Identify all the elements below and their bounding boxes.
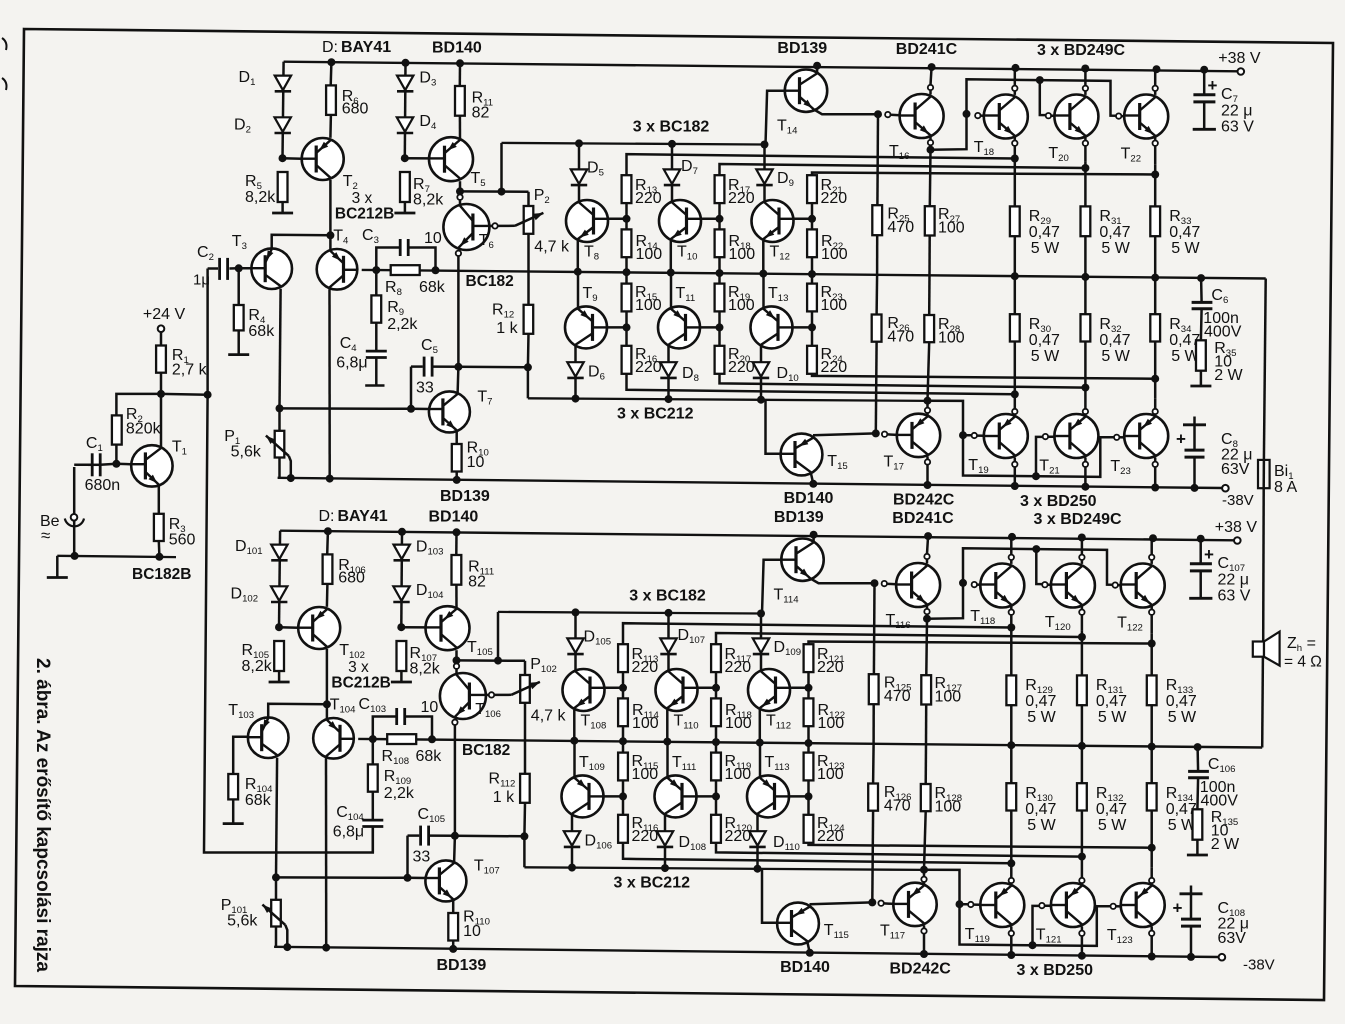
svg-text:33: 33 <box>413 849 431 866</box>
svg-text:68k: 68k <box>245 792 272 809</box>
svg-text:BD242C: BD242C <box>893 492 955 509</box>
svg-text:68k: 68k <box>416 748 443 765</box>
svg-text:BD241C: BD241C <box>896 41 958 58</box>
svg-text:BD140: BD140 <box>429 509 479 526</box>
svg-text:100: 100 <box>938 220 965 237</box>
svg-text:BAY41: BAY41 <box>341 39 391 56</box>
svg-text:400V: 400V <box>1204 324 1242 341</box>
svg-text:5 W: 5 W <box>1168 709 1197 726</box>
svg-text:220: 220 <box>821 190 848 207</box>
svg-text:BD140: BD140 <box>784 490 834 507</box>
svg-text:3 x BC182: 3 x BC182 <box>633 119 710 136</box>
svg-text:0,47: 0,47 <box>1096 693 1127 710</box>
svg-text:220: 220 <box>725 828 752 845</box>
svg-text:470: 470 <box>887 219 914 236</box>
svg-text:BC182: BC182 <box>462 742 510 759</box>
svg-text:100: 100 <box>821 297 848 314</box>
svg-text:400V: 400V <box>1201 793 1239 810</box>
svg-text:0,47: 0,47 <box>1166 693 1197 710</box>
svg-text:BD140: BD140 <box>432 40 482 57</box>
svg-text:2 W: 2 W <box>1214 367 1243 384</box>
svg-text:3 x BC212: 3 x BC212 <box>617 406 694 423</box>
svg-text:63V: 63V <box>1218 930 1247 947</box>
svg-text:220: 220 <box>728 359 755 376</box>
svg-text:100: 100 <box>935 689 962 706</box>
svg-text:5 W: 5 W <box>1101 348 1130 365</box>
svg-text:2. ábra. Az erősítő kapcsolási: 2. ábra. Az erősítő kapcsolási rajza <box>32 658 53 972</box>
svg-text:-38V: -38V <box>1243 957 1275 974</box>
svg-text:63 V: 63 V <box>1221 119 1254 136</box>
svg-text:6,8μ: 6,8μ <box>333 824 364 841</box>
svg-text:0,47: 0,47 <box>1029 332 1060 349</box>
svg-text:680: 680 <box>342 101 369 118</box>
svg-text:33: 33 <box>416 380 434 397</box>
svg-text:100: 100 <box>725 715 752 732</box>
svg-text:BD242C: BD242C <box>890 961 952 978</box>
svg-text:100: 100 <box>725 766 752 783</box>
svg-text:≈: ≈ <box>41 526 50 545</box>
svg-text:100: 100 <box>636 246 663 263</box>
svg-text:82: 82 <box>472 105 490 122</box>
svg-text:560: 560 <box>169 532 196 549</box>
svg-text:BAY41: BAY41 <box>338 508 388 525</box>
svg-text:8,2k: 8,2k <box>245 189 276 206</box>
svg-text:1 k: 1 k <box>493 789 515 806</box>
svg-text:6,8μ: 6,8μ <box>336 355 367 372</box>
svg-text:D:: D: <box>319 508 335 525</box>
svg-text:820k: 820k <box>126 421 162 438</box>
svg-text:5 W: 5 W <box>1031 240 1060 257</box>
svg-text:0,47: 0,47 <box>1025 693 1056 710</box>
svg-text:8,2k: 8,2k <box>413 192 444 209</box>
svg-text:68k: 68k <box>248 323 275 340</box>
svg-text:220: 220 <box>635 190 662 207</box>
svg-text:220: 220 <box>821 359 848 376</box>
svg-text:D:: D: <box>322 39 338 56</box>
svg-text:220: 220 <box>817 659 844 676</box>
svg-text:100: 100 <box>635 297 662 314</box>
svg-text:Zh​ =: Zh​ = <box>1287 635 1316 654</box>
svg-text:2,7 k: 2,7 k <box>172 362 208 379</box>
svg-text:82: 82 <box>468 574 486 591</box>
svg-text:10: 10 <box>421 699 439 716</box>
svg-text:5 W: 5 W <box>1027 817 1056 834</box>
svg-text:BD140: BD140 <box>780 959 830 976</box>
svg-text:63 V: 63 V <box>1218 588 1251 605</box>
svg-text:0,47: 0,47 <box>1099 224 1130 241</box>
svg-text:8,2k: 8,2k <box>410 661 441 678</box>
svg-text:22 μ: 22 μ <box>1218 572 1249 589</box>
svg-text:0,47: 0,47 <box>1169 224 1200 241</box>
svg-text:5 W: 5 W <box>1031 348 1060 365</box>
svg-text:3 x BD250: 3 x BD250 <box>1020 493 1097 510</box>
svg-text:3 x BD249C: 3 x BD249C <box>1034 511 1122 528</box>
svg-text:BD139: BD139 <box>774 509 824 526</box>
svg-text:3 x: 3 x <box>352 190 373 207</box>
svg-text:10: 10 <box>467 454 485 471</box>
svg-text:3 x BC182: 3 x BC182 <box>629 588 706 605</box>
svg-text:680: 680 <box>338 570 365 587</box>
svg-text:100: 100 <box>935 799 962 816</box>
svg-text:+: + <box>1204 545 1214 564</box>
svg-text:BC182: BC182 <box>466 273 514 290</box>
svg-text:22 μ: 22 μ <box>1221 103 1252 120</box>
svg-text:BC182B: BC182B <box>132 566 191 583</box>
svg-text:8 A: 8 A <box>1274 479 1297 496</box>
svg-text:100: 100 <box>632 766 659 783</box>
svg-text:5 W: 5 W <box>1171 240 1200 257</box>
svg-text:BD139: BD139 <box>777 40 827 57</box>
svg-text:2,2k: 2,2k <box>387 316 418 333</box>
svg-text:0,47: 0,47 <box>1025 801 1056 818</box>
svg-text:5 W: 5 W <box>1098 709 1127 726</box>
svg-text:470: 470 <box>884 688 911 705</box>
svg-text:0,47: 0,47 <box>1029 224 1060 241</box>
svg-text:100: 100 <box>818 715 845 732</box>
svg-text:100: 100 <box>632 715 659 732</box>
svg-text:+: + <box>1176 430 1186 449</box>
svg-text:100: 100 <box>817 766 844 783</box>
svg-text:5 W: 5 W <box>1098 817 1127 834</box>
svg-text:220: 220 <box>635 359 662 376</box>
svg-text:5 W: 5 W <box>1027 709 1056 726</box>
svg-text:5 W: 5 W <box>1101 240 1130 257</box>
svg-text:100: 100 <box>821 246 848 263</box>
svg-text:8,2k: 8,2k <box>242 658 273 675</box>
svg-text:BD139: BD139 <box>437 957 487 974</box>
svg-text:+38 V: +38 V <box>1215 519 1258 536</box>
svg-text:220: 220 <box>728 190 755 207</box>
svg-text:BC212B: BC212B <box>335 206 394 223</box>
svg-text:+38 V: +38 V <box>1218 50 1261 67</box>
svg-text:100: 100 <box>729 246 756 263</box>
svg-text:BD139: BD139 <box>440 488 490 505</box>
svg-text:100: 100 <box>938 330 965 347</box>
svg-text:0,47: 0,47 <box>1099 332 1130 349</box>
svg-text:68k: 68k <box>419 279 446 296</box>
svg-text:0,47: 0,47 <box>1096 801 1127 818</box>
svg-text:63V: 63V <box>1221 461 1250 478</box>
svg-text:2 W: 2 W <box>1211 836 1240 853</box>
svg-text:3 x BD249C: 3 x BD249C <box>1037 42 1125 59</box>
svg-text:3 x BC212: 3 x BC212 <box>614 875 691 892</box>
svg-text:+: + <box>1208 76 1218 95</box>
svg-text:BD241C: BD241C <box>892 510 954 527</box>
svg-text:10: 10 <box>463 923 481 940</box>
svg-text:220: 220 <box>632 828 659 845</box>
svg-text:470: 470 <box>884 798 911 815</box>
svg-text:4,7 k: 4,7 k <box>531 708 567 725</box>
svg-text:10: 10 <box>424 230 442 247</box>
svg-text:220: 220 <box>725 659 752 676</box>
svg-text:+: + <box>1173 899 1183 918</box>
svg-text:BC212B: BC212B <box>331 675 390 692</box>
svg-text:-38V: -38V <box>1222 492 1254 509</box>
svg-text:5,6k: 5,6k <box>227 913 258 930</box>
svg-text:100: 100 <box>728 297 755 314</box>
svg-text:= 4 Ω: = 4 Ω <box>1284 654 1322 671</box>
svg-text:1 k: 1 k <box>496 320 518 337</box>
svg-text:4,7 k: 4,7 k <box>534 239 570 256</box>
svg-text:220: 220 <box>817 828 844 845</box>
svg-text:+24 V: +24 V <box>143 306 186 323</box>
svg-text:3 x: 3 x <box>348 659 369 676</box>
svg-text:3 x BD250: 3 x BD250 <box>1017 962 1094 979</box>
svg-text:470: 470 <box>887 329 914 346</box>
svg-text:2,2k: 2,2k <box>384 785 415 802</box>
svg-text:220: 220 <box>632 659 659 676</box>
svg-text:680n: 680n <box>85 477 121 494</box>
svg-text:5,6k: 5,6k <box>231 444 262 461</box>
